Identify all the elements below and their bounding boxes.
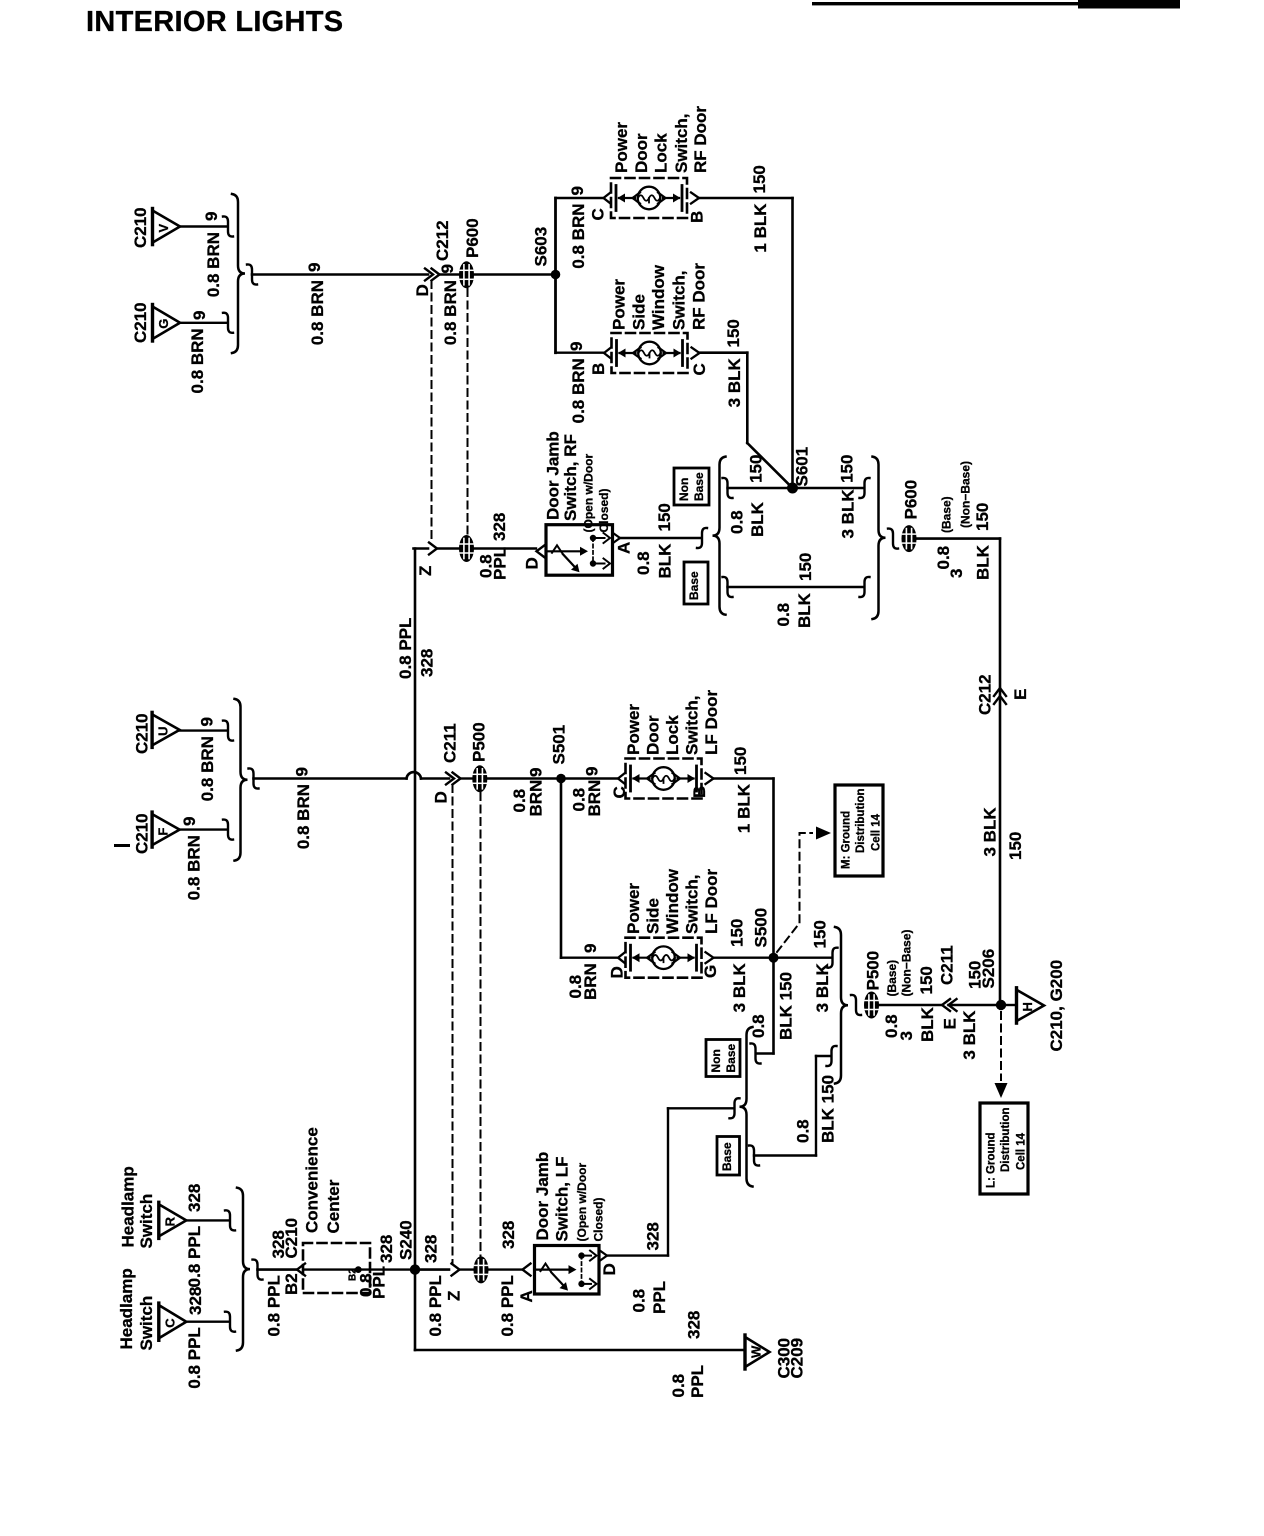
splice S500 — [769, 953, 779, 963]
svg-text:150: 150 — [796, 553, 815, 581]
svg-text:Switch,: Switch, — [683, 695, 702, 755]
wire 0.8 PPL vertical — [414, 549, 417, 1265]
dashed wire C211 to Z lower — [452, 785, 454, 1263]
svg-text:D: D — [413, 284, 432, 296]
wire U to tick — [180, 729, 227, 731]
svg-text:Door Jamb: Door Jamb — [533, 1152, 552, 1241]
wire jamb RF A to tick — [620, 537, 700, 539]
connector C210 cavity Z chevron (lower) — [452, 1264, 460, 1276]
svg-text:3 BLK: 3 BLK — [839, 489, 858, 539]
svg-text:BLK: BLK — [656, 543, 675, 579]
svg-text:1 BLK: 1 BLK — [751, 203, 770, 253]
svg-text:C: C — [589, 208, 608, 220]
svg-text:Switch, LF: Switch, LF — [553, 1157, 572, 1242]
svg-text:C211: C211 — [441, 723, 460, 763]
svg-text:150: 150 — [1006, 832, 1025, 860]
wire S500 corner left — [757, 1052, 774, 1054]
svg-text:Power: Power — [624, 883, 643, 934]
wire through convenience center — [304, 1268, 413, 1270]
svg-text:Side: Side — [630, 294, 649, 330]
svg-text:S601: S601 — [793, 447, 812, 487]
brace joining V+G — [232, 194, 245, 353]
svg-text:150: 150 — [728, 919, 747, 947]
svg-text:C211: C211 — [938, 945, 957, 985]
brace joining U+F — [235, 699, 248, 861]
svg-text:C210: C210 — [131, 302, 150, 343]
wire S603 to window RF pin B — [556, 352, 604, 354]
svg-text:Convenience: Convenience — [303, 1127, 322, 1233]
svg-text:150: 150 — [811, 920, 830, 948]
connector headlamp switch R — [159, 1202, 187, 1238]
svg-text:PPL: PPL — [688, 1365, 707, 1398]
wire P600 to S603 — [474, 273, 551, 276]
wire P500 right to C211-E — [878, 1004, 941, 1006]
svg-text:150: 150 — [747, 455, 766, 483]
svg-text:150: 150 — [750, 165, 769, 193]
pin A chevron jamb LF — [523, 1264, 531, 1276]
wire Z to splice lower — [460, 1268, 474, 1270]
svg-text:D: D — [608, 966, 627, 978]
wire C212 to P600 — [440, 273, 460, 276]
svg-text:0.8 BRN: 0.8 BRN — [198, 736, 217, 801]
splice P600 (right) — [902, 525, 917, 552]
dashed wire P500 to P500 lower — [480, 793, 482, 1258]
wire jamb LF D right — [607, 1254, 668, 1256]
splice S603 — [551, 270, 561, 280]
svg-text:BLK: BLK — [748, 501, 767, 537]
svg-text:Power: Power — [610, 279, 629, 330]
svg-text:328: 328 — [185, 1184, 204, 1212]
svg-text:RF Door: RF Door — [690, 263, 709, 330]
svg-text:S500: S500 — [752, 908, 771, 948]
wire end tick R — [225, 1210, 235, 1230]
svg-text:0.8 PPL: 0.8 PPL — [498, 1275, 517, 1336]
connector C211 cavity E chevron 2 — [949, 999, 957, 1011]
M Ground Distribution Cell 14 box — [835, 785, 883, 876]
svg-text:G: G — [701, 965, 720, 978]
svg-text:Base: Base — [687, 571, 701, 600]
svg-text:Distribution: Distribution — [1000, 1107, 1012, 1172]
svg-text:BRN: BRN — [585, 780, 604, 817]
wire S501 vertical — [560, 779, 563, 958]
L Ground Distribution Cell 14 box — [980, 1103, 1028, 1194]
svg-text:(Base): (Base) — [885, 960, 899, 997]
svg-text:B2: B2 — [282, 1273, 301, 1295]
wire 1 BLK vertical to S601 — [791, 198, 794, 486]
svg-text:Side: Side — [644, 898, 663, 934]
tick main start (bottom) — [253, 1260, 263, 1280]
svg-text:Power: Power — [612, 122, 631, 173]
svg-text:D: D — [523, 557, 542, 569]
wire S500 down — [772, 958, 775, 1054]
tick jamb RF A end — [697, 528, 707, 548]
svg-text:RF Door: RF Door — [691, 106, 710, 173]
tick before P500 right — [851, 995, 861, 1015]
svg-text:C210: C210 — [133, 813, 152, 854]
svg-text:Cell 14: Cell 14 — [1016, 1132, 1028, 1170]
svg-text:C210: C210 — [282, 1218, 301, 1259]
splice P600 (lower) — [459, 535, 474, 562]
svg-text:C210, G200: C210, G200 — [1047, 960, 1066, 1052]
wire S603 to lock RF pin C — [556, 197, 604, 199]
ground G200 triangle H — [1017, 988, 1045, 1023]
svg-text:1 BLK: 1 BLK — [735, 783, 754, 833]
dashed wire P600 to P600 lower — [467, 289, 469, 534]
tick nonbase end (LF) — [828, 948, 838, 968]
tick main start (mid) — [249, 768, 259, 788]
connector C210 cavity G — [153, 305, 181, 342]
brace RF ground split — [713, 457, 726, 615]
wire 3 BLK vertical — [746, 353, 749, 443]
tick main start (top) — [247, 264, 257, 284]
svg-text:BLK: BLK — [974, 544, 993, 580]
svg-text:328: 328 — [499, 1221, 518, 1249]
svg-text:Switch, RF: Switch, RF — [561, 434, 580, 521]
svg-text:Non: Non — [709, 1049, 723, 1072]
wire Z to splice — [437, 547, 459, 549]
svg-text:9: 9 — [527, 768, 546, 777]
svg-text:D: D — [600, 1263, 619, 1275]
svg-text:328: 328 — [490, 513, 509, 541]
svg-text:9: 9 — [190, 311, 209, 320]
svg-text:9: 9 — [567, 342, 586, 351]
svg-text:S603: S603 — [532, 227, 551, 267]
wire S240 down — [414, 1270, 417, 1350]
wire window LF pin G to S500 — [714, 957, 772, 959]
svg-text:W: W — [749, 1345, 764, 1358]
brace joining R+C — [237, 1188, 250, 1351]
svg-text:Headlamp: Headlamp — [119, 1166, 138, 1247]
svg-text:9: 9 — [293, 767, 312, 776]
tick RF nonbase end — [860, 478, 870, 498]
wire end tick U — [223, 721, 233, 741]
svg-text:G: G — [156, 319, 171, 329]
svg-text:B: B — [589, 363, 608, 375]
wire V to tick — [180, 225, 227, 227]
svg-text:Closed): Closed) — [597, 488, 611, 532]
main wire 0.8 BRN 9 (mid) left of hop — [254, 777, 407, 780]
svg-text:9: 9 — [568, 186, 587, 195]
svg-text:Door Jamb: Door Jamb — [544, 431, 563, 520]
svg-text:C210: C210 — [131, 207, 150, 248]
wire lock RF pin B right — [700, 197, 793, 200]
svg-text:Base: Base — [692, 472, 706, 501]
connector C300/C209 W — [745, 1335, 770, 1369]
connector C212 cavity E chevron 2 — [994, 696, 1006, 704]
svg-text:9: 9 — [305, 263, 324, 272]
wire S500 right to tick — [774, 957, 832, 959]
wire P500 to S501 — [487, 777, 556, 780]
svg-text:Z: Z — [416, 566, 435, 576]
pin D chevron jamb LF — [600, 1251, 607, 1261]
svg-text:PPL: PPL — [491, 547, 510, 580]
svg-text:PPL: PPL — [650, 1281, 669, 1314]
svg-text:9: 9 — [202, 212, 221, 221]
svg-text:BLK 150: BLK 150 — [819, 1075, 838, 1143]
tick base upper (LF) — [751, 1043, 761, 1063]
svg-text:Switch,: Switch, — [683, 874, 702, 934]
svg-text:BLK 150: BLK 150 — [777, 972, 796, 1040]
pin B2 chevron — [297, 1264, 305, 1276]
wire window RF pin C right — [701, 351, 748, 354]
svg-text:A: A — [615, 542, 634, 554]
brace LF ground merge — [835, 927, 848, 1084]
svg-text:0.8: 0.8 — [669, 1374, 688, 1398]
wire G to tick — [180, 322, 227, 324]
wire jamb LF D vertical — [667, 1108, 669, 1255]
svg-text:328: 328 — [186, 1287, 205, 1315]
Non-Base tag (LF) — [706, 1040, 740, 1077]
svg-text:150: 150 — [724, 319, 743, 347]
main wire 0.8 BRN 9 (top) — [252, 273, 428, 276]
splice S206 — [996, 1000, 1006, 1010]
svg-text:9: 9 — [438, 264, 457, 273]
svg-text:E: E — [1011, 689, 1030, 700]
svg-text:H: H — [1020, 1002, 1035, 1011]
svg-text:LF Door: LF Door — [702, 868, 721, 934]
svg-text:BRN: BRN — [527, 780, 546, 817]
wire base lower vertical (LF) — [815, 1056, 817, 1156]
wire S206 to G200 triangle — [1006, 1004, 1017, 1006]
svg-text:0.8: 0.8 — [794, 1119, 813, 1143]
svg-text:Cell 14: Cell 14 — [871, 813, 883, 851]
svg-text:Z: Z — [445, 1291, 464, 1301]
splice P500 (right) — [864, 992, 879, 1019]
svg-text:F: F — [156, 828, 171, 836]
connector C210 cavity F — [152, 812, 180, 847]
svg-text:P500: P500 — [470, 722, 489, 762]
wire 3 BLK diagonal to S601 — [747, 443, 791, 487]
brace RF ground merge — [873, 457, 886, 619]
convenience center dashed box — [303, 1243, 370, 1293]
connector headlamp switch C — [159, 1303, 187, 1340]
wire to convenience center — [258, 1268, 297, 1271]
svg-text:9: 9 — [180, 817, 199, 826]
svg-text:C212: C212 — [433, 220, 452, 261]
svg-text:3: 3 — [947, 569, 966, 578]
svg-text:D: D — [432, 791, 451, 803]
splice P600 — [459, 261, 474, 288]
dashed wire C212-D to C212-Z — [431, 281, 433, 541]
svg-text:V: V — [156, 224, 171, 233]
tick RF base end — [860, 577, 870, 597]
dashed wire to M ground ref — [777, 833, 812, 952]
wire end tick V — [223, 216, 233, 236]
splice P500 — [472, 765, 487, 792]
connector C211 chevron 1 — [446, 773, 454, 785]
door jamb switch RF — [546, 525, 613, 576]
svg-text:(Base): (Base) — [940, 496, 954, 533]
power door lock switch LF door — [618, 759, 714, 799]
wire 1 BLK vertical to S500 — [772, 779, 775, 958]
wire 3 BLK to corner — [917, 537, 1001, 540]
splice S240 — [410, 1264, 420, 1274]
power side window switch RF door — [604, 333, 700, 373]
svg-text:P500: P500 — [864, 951, 883, 991]
svg-text:(Non−Base): (Non−Base) — [959, 461, 973, 528]
svg-text:Switch,: Switch, — [672, 113, 691, 173]
Base tag (RF) — [684, 562, 708, 604]
tick jamb LF D end — [730, 1098, 740, 1118]
wire C211 to P500 — [461, 777, 473, 779]
svg-text:Center: Center — [324, 1179, 343, 1233]
svg-text:0.8 BRN: 0.8 BRN — [308, 280, 327, 345]
connector C212 cavity E chevron 1 — [994, 688, 1006, 696]
wire S240 to Z chevron — [415, 1268, 449, 1271]
svg-text:0.8 BRN: 0.8 BRN — [569, 203, 588, 268]
svg-text:Door: Door — [644, 715, 663, 755]
tick RF nonbase start — [723, 478, 733, 498]
svg-text:328: 328 — [422, 1235, 441, 1263]
svg-text:3 BLK: 3 BLK — [730, 962, 749, 1012]
svg-text:S206: S206 — [979, 949, 998, 989]
svg-text:150: 150 — [838, 455, 857, 483]
wire end tick F — [223, 820, 233, 840]
stray dash mark — [114, 844, 130, 847]
svg-text:BRN: BRN — [581, 963, 600, 1000]
arrow to M ground box — [816, 827, 831, 840]
svg-text:C210: C210 — [133, 713, 152, 754]
svg-text:R: R — [162, 1216, 177, 1226]
svg-text:3 BLK: 3 BLK — [981, 807, 1000, 857]
wire lock LF pin B right — [714, 777, 774, 779]
svg-text:0.8 PPL: 0.8 PPL — [265, 1275, 284, 1336]
svg-text:L: Ground: L: Ground — [986, 1132, 998, 1188]
svg-text:0.8 BRN: 0.8 BRN — [188, 328, 207, 393]
wire Z row start — [414, 547, 429, 550]
splice S501 — [556, 774, 566, 784]
svg-text:C: C — [162, 1318, 177, 1328]
svg-text:150: 150 — [973, 503, 992, 531]
svg-text:0.8 PPL: 0.8 PPL — [185, 1327, 204, 1388]
Base tag (LF) — [717, 1137, 740, 1176]
pin A chevron jamb RF — [613, 533, 620, 543]
wire F to tick — [180, 828, 227, 830]
svg-text:BLK: BLK — [918, 1006, 937, 1042]
svg-text:Distribution: Distribution — [855, 788, 867, 853]
svg-text:9: 9 — [583, 767, 602, 776]
wire splice to jamb LF — [489, 1268, 522, 1270]
svg-text:S501: S501 — [550, 725, 569, 765]
Non-Base tag (RF) — [674, 468, 709, 505]
wire to window LF pin D — [561, 957, 618, 959]
svg-text:9: 9 — [198, 717, 217, 726]
wire C to tick — [187, 1320, 230, 1322]
svg-text:LF Door: LF Door — [702, 689, 721, 755]
svg-text:0.8: 0.8 — [634, 551, 653, 575]
svg-text:Switch,: Switch, — [670, 270, 689, 330]
svg-text:Headlamp: Headlamp — [117, 1268, 136, 1349]
svg-text:0.8 BRN: 0.8 BRN — [441, 280, 460, 345]
wire 3 BLK 150 long vertical — [999, 539, 1002, 1005]
svg-text:B: B — [688, 211, 707, 223]
main wire mid right of hop — [421, 777, 449, 780]
tick RF base start — [723, 577, 733, 597]
svg-text:Lock: Lock — [652, 133, 671, 173]
dashed wire S206 to L ground ref — [1000, 1012, 1002, 1080]
connector C210 cavity U — [152, 712, 180, 747]
svg-text:P600: P600 — [902, 480, 921, 520]
svg-text:9: 9 — [581, 944, 600, 953]
svg-text:B: B — [690, 786, 709, 798]
svg-text:0.8: 0.8 — [630, 1289, 649, 1313]
svg-text:328: 328 — [644, 1222, 663, 1250]
svg-text:0.8 BRN: 0.8 BRN — [569, 358, 588, 423]
connector C212 chevron 1 — [425, 269, 433, 281]
svg-text:328: 328 — [418, 649, 437, 677]
svg-text:E: E — [941, 1018, 960, 1029]
wire hop over PPL vertical — [407, 772, 422, 778]
wire 0.8 PPL to jamb RF — [474, 547, 536, 549]
svg-text:3 BLK: 3 BLK — [960, 1010, 979, 1060]
wire base lower top (LF) — [816, 1055, 830, 1057]
svg-text:0.8 BRN: 0.8 BRN — [294, 784, 313, 849]
brace LF ground split — [740, 1027, 753, 1187]
wire 0.8 BLK to S601 / 3 BLK after — [728, 487, 864, 489]
svg-text:150: 150 — [731, 747, 750, 775]
tick base lower end (LF) — [827, 1046, 837, 1066]
svg-text:Base: Base — [724, 1043, 738, 1072]
svg-text:(Open w/Door: (Open w/Door — [582, 454, 596, 533]
svg-text:(Non−Base): (Non−Base) — [900, 929, 914, 996]
splice S601 — [787, 483, 798, 494]
svg-text:Window: Window — [663, 868, 682, 934]
svg-text:328: 328 — [685, 1311, 704, 1339]
connector C212 chevron 2 — [432, 269, 440, 281]
svg-text:C: C — [690, 363, 709, 375]
wire jamb LF D up segment — [668, 1107, 733, 1109]
svg-text:C209: C209 — [788, 1338, 807, 1379]
svg-text:Window: Window — [649, 264, 668, 330]
svg-text:Closed): Closed) — [592, 1197, 606, 1241]
svg-text:3 BLK: 3 BLK — [725, 357, 744, 407]
svg-text:PPL: PPL — [370, 1266, 389, 1299]
wire R to tick — [187, 1219, 230, 1221]
svg-text:C212: C212 — [976, 674, 995, 715]
svg-text:Switch: Switch — [137, 1194, 156, 1249]
connector C211 cavity E chevron 1 — [942, 999, 950, 1011]
svg-text:3: 3 — [897, 1031, 916, 1040]
svg-text:(Open w/Door: (Open w/Door — [575, 1163, 589, 1242]
power side window switch LF door — [618, 938, 714, 978]
wire S501 to lock LF pin C — [561, 777, 618, 779]
svg-text:0.8 PPL: 0.8 PPL — [185, 1226, 204, 1287]
svg-text:M: Ground: M: Ground — [841, 811, 853, 869]
svg-text:0.8 BRN: 0.8 BRN — [185, 835, 204, 900]
wire C211-E to S206 — [949, 1004, 997, 1006]
svg-text:150: 150 — [655, 503, 674, 531]
svg-text:Non: Non — [677, 478, 691, 501]
svg-text:Power: Power — [624, 704, 643, 755]
svg-text:INTERIOR LIGHTS: INTERIOR LIGHTS — [86, 6, 343, 38]
connector C211 chevron 2 — [453, 773, 461, 785]
wire 0.8 BLK base RF — [728, 586, 864, 588]
svg-text:Door: Door — [632, 133, 651, 173]
wire end tick C — [225, 1312, 235, 1332]
svg-text:328: 328 — [377, 1235, 396, 1263]
svg-text:0.8: 0.8 — [774, 603, 793, 627]
svg-text:P600: P600 — [463, 218, 482, 258]
svg-text:S240: S240 — [397, 1220, 416, 1260]
svg-text:U: U — [156, 727, 171, 736]
svg-text:0.8 PPL: 0.8 PPL — [426, 1275, 445, 1336]
pin D chevron jamb RF — [537, 545, 545, 557]
power door lock switch RF door — [604, 178, 700, 218]
svg-text:0.8 BRN: 0.8 BRN — [204, 232, 223, 297]
connector C210 cavity Z chevron — [429, 543, 437, 555]
svg-text:3 BLK: 3 BLK — [813, 962, 832, 1012]
svg-text:0.8 PPL: 0.8 PPL — [396, 618, 415, 679]
